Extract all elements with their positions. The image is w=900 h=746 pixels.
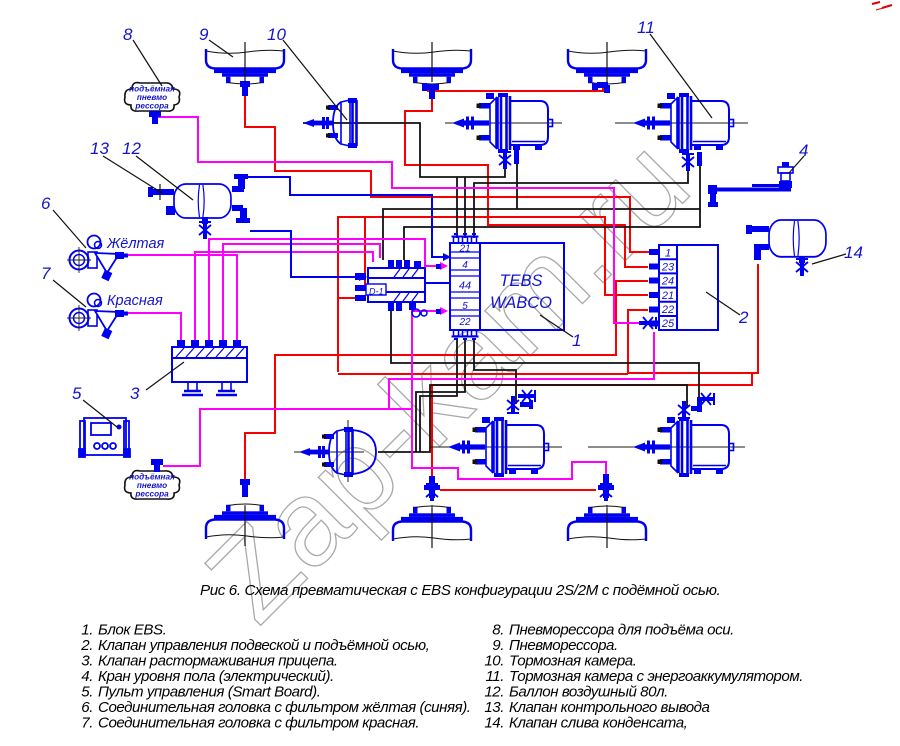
svg-text:Пульт управления (Smart Board): Пульт управления (Smart Board). bbox=[98, 684, 320, 701]
svg-text:13: 13 bbox=[90, 139, 109, 158]
svg-text:44: 44 bbox=[459, 280, 471, 292]
svg-text:7: 7 bbox=[41, 264, 51, 283]
svg-text:TEBS: TEBS bbox=[499, 272, 542, 290]
svg-text:Кран уровня пола (электрически: Кран уровня пола (электрический). bbox=[98, 668, 334, 685]
svg-text:Блок EBS.: Блок EBS. bbox=[98, 622, 166, 639]
svg-text:7.: 7. bbox=[81, 715, 93, 732]
svg-text:22: 22 bbox=[661, 304, 674, 316]
svg-text:Соединительная головка с фильт: Соединительная головка с фильтром жёлтая… bbox=[98, 699, 471, 716]
svg-text:11.: 11. bbox=[485, 668, 504, 685]
svg-text:23: 23 bbox=[661, 262, 675, 274]
svg-text:24: 24 bbox=[661, 276, 674, 288]
svg-text:2: 2 bbox=[738, 308, 749, 327]
svg-text:Баллон воздушный 80л.: Баллон воздушный 80л. bbox=[509, 684, 668, 701]
svg-text:Клапан контрольного вывода: Клапан контрольного вывода bbox=[509, 699, 710, 716]
svg-text:22: 22 bbox=[458, 317, 471, 328]
svg-text:11: 11 bbox=[637, 18, 655, 37]
svg-text:D-1: D-1 bbox=[369, 287, 384, 297]
svg-text:8.: 8. bbox=[492, 622, 504, 639]
svg-text:9.: 9. bbox=[492, 637, 504, 654]
svg-text:6.: 6. bbox=[81, 699, 93, 716]
svg-text:8: 8 bbox=[123, 25, 133, 44]
svg-text:9: 9 bbox=[199, 25, 209, 44]
svg-text:Клапан слива конденсата,: Клапан слива конденсата, bbox=[509, 715, 687, 732]
svg-text:Тормозная камера.: Тормозная камера. bbox=[509, 653, 636, 670]
svg-text:14: 14 bbox=[844, 243, 863, 262]
svg-text:Рис 6. Схема превматическая с: Рис 6. Схема превматическая с EBS конфиг… bbox=[200, 582, 720, 599]
svg-text:Жёлтая: Жёлтая bbox=[106, 236, 165, 252]
svg-text:Клапан управления подвеской и: Клапан управления подвеской и подъёмной … bbox=[98, 637, 429, 654]
svg-text:1: 1 bbox=[665, 248, 671, 260]
svg-text:WABCO: WABCO bbox=[490, 294, 552, 312]
svg-text:10.: 10. bbox=[484, 653, 504, 670]
svg-text:4.: 4. bbox=[81, 668, 93, 685]
svg-text:1: 1 bbox=[572, 331, 581, 350]
svg-text:3: 3 bbox=[130, 384, 140, 403]
svg-text:Тормозная камера с энергоаккум: Тормозная камера с энергоаккумулятором. bbox=[509, 668, 803, 685]
svg-text:3.: 3. bbox=[81, 653, 93, 670]
svg-text:Соединительная головка с фильт: Соединительная головка с фильтром красна… bbox=[98, 715, 419, 732]
svg-text:25: 25 bbox=[661, 318, 675, 330]
svg-text:4: 4 bbox=[462, 260, 468, 271]
svg-text:5: 5 bbox=[462, 301, 468, 312]
svg-text:12.: 12. bbox=[484, 684, 504, 701]
svg-text:Красная: Красная bbox=[107, 293, 163, 309]
svg-text:Клапан растормаживания прицепа: Клапан растормаживания прицепа. bbox=[98, 653, 338, 670]
svg-text:2.: 2. bbox=[80, 637, 93, 654]
svg-text:4: 4 bbox=[799, 141, 808, 160]
svg-text:13.: 13. bbox=[484, 699, 504, 716]
svg-text:21: 21 bbox=[661, 290, 674, 302]
svg-text:5: 5 bbox=[72, 384, 82, 403]
svg-text:Пневморессора для подъёма оси.: Пневморессора для подъёма оси. bbox=[509, 622, 734, 639]
svg-text:5.: 5. bbox=[81, 684, 93, 701]
svg-text:21: 21 bbox=[458, 244, 470, 255]
svg-text:14.: 14. bbox=[484, 715, 504, 732]
svg-text:10: 10 bbox=[267, 25, 286, 44]
svg-text:12: 12 bbox=[122, 139, 141, 158]
svg-text:6: 6 bbox=[41, 194, 51, 213]
svg-text:Пневморессора.: Пневморессора. bbox=[509, 637, 618, 654]
svg-text:1.: 1. bbox=[81, 622, 93, 639]
